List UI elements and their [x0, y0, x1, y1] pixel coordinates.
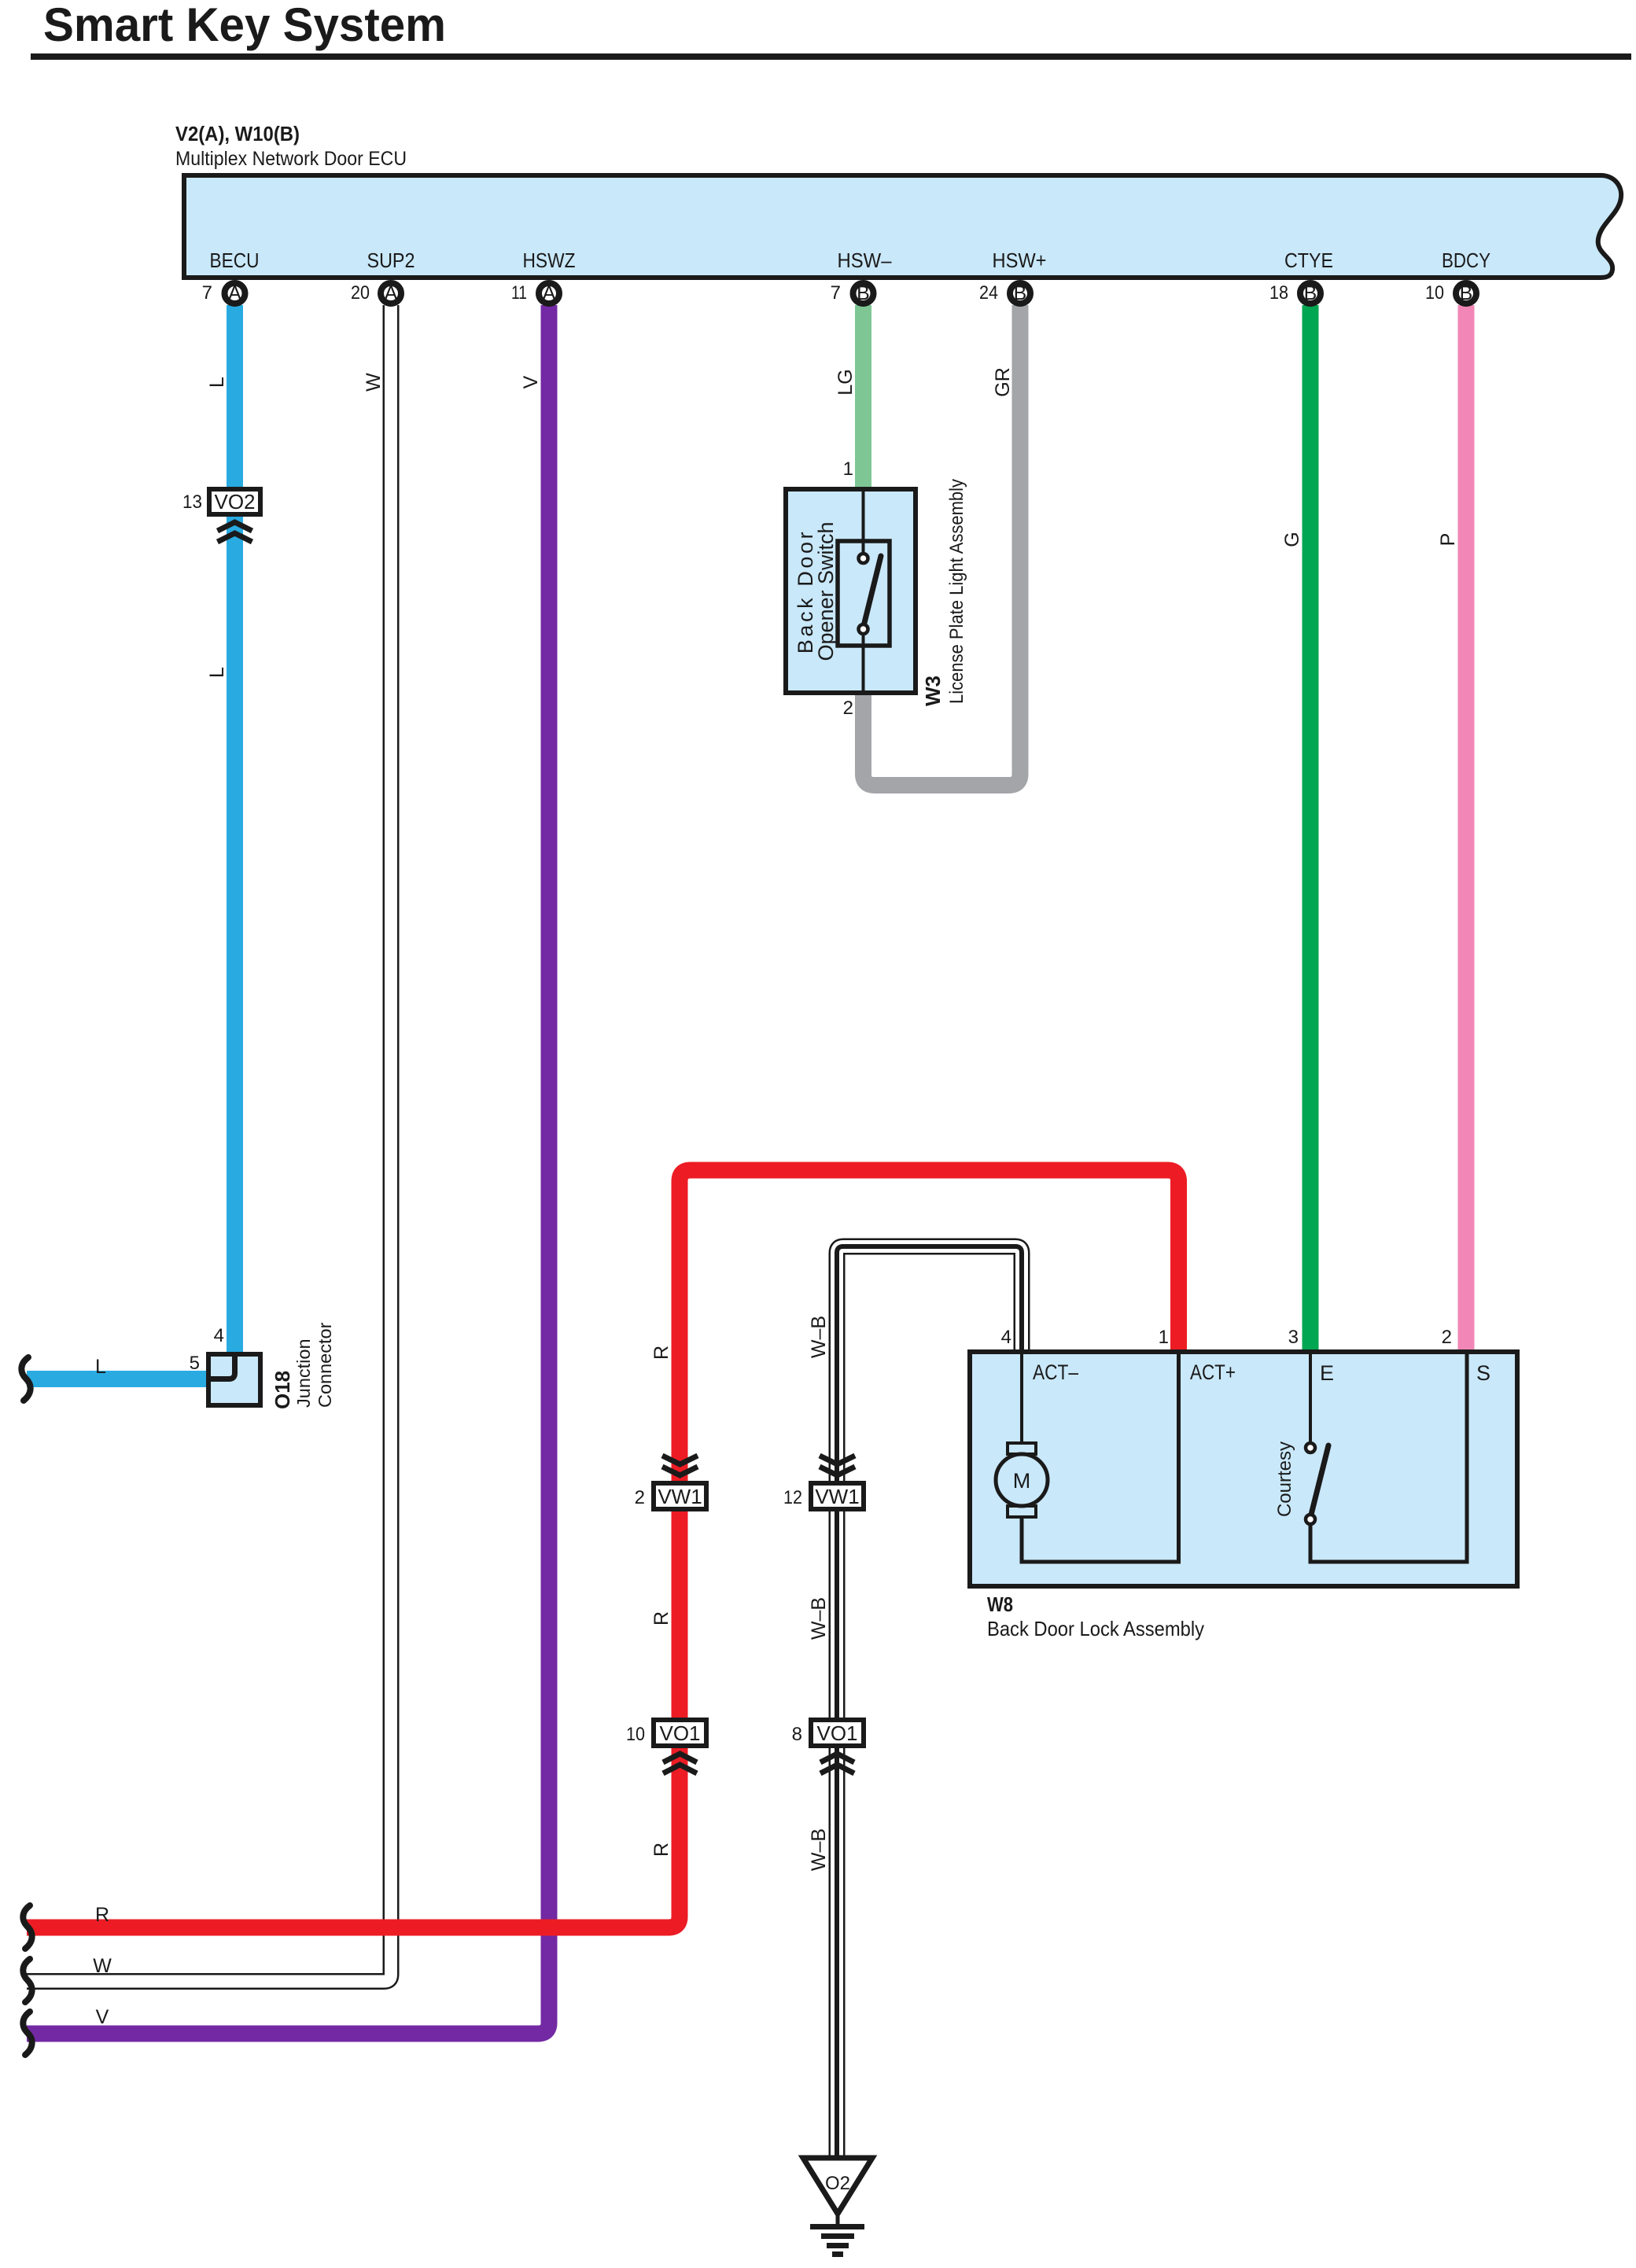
svg-text:B: B: [1304, 282, 1317, 304]
W8 pin number 2: [1442, 1327, 1452, 1348]
svg-text:L: L: [206, 377, 228, 388]
pin 10(B) BDCY: [1425, 282, 1476, 304]
wire V purple from HSWZ pin 11(A): [27, 305, 549, 2034]
pin 7(B) HSW-: [831, 282, 874, 304]
wire label W-B (between VW1 and VO1): [808, 1597, 830, 1640]
connector 8 VO1 on W-B wire: [792, 1720, 864, 1773]
svg-text:1: 1: [843, 458, 853, 480]
svg-text:13: 13: [182, 492, 202, 513]
svg-text:4: 4: [1001, 1327, 1011, 1348]
W3 inner switch rectangle: [838, 541, 890, 646]
wire label L (upper, BECU wire): [206, 377, 228, 388]
wire label R (below VO1): [650, 1843, 672, 1857]
wire LG light green from HSW- pin 7(B): [855, 305, 871, 489]
connector 2 VW1 on R wire: [635, 1456, 706, 1509]
motor M symbol: [996, 1443, 1048, 1517]
svg-text:B: B: [1460, 282, 1473, 304]
svg-text:12: 12: [783, 1487, 802, 1508]
svg-text:HSW–: HSW–: [838, 249, 892, 272]
wire label L (horizontal O18 wire): [95, 1356, 106, 1378]
svg-text:Back Door Lock Assembly: Back Door Lock Assembly: [987, 1617, 1204, 1640]
wire label W (SUP2 wire): [363, 373, 385, 392]
svg-text:License Plate Light Assembly: License Plate Light Assembly: [946, 479, 967, 704]
svg-text:B: B: [857, 282, 870, 304]
svg-text:A: A: [385, 282, 398, 304]
svg-text:W–B: W–B: [808, 1597, 830, 1640]
connector 10 VO1 on R wire: [626, 1720, 706, 1773]
svg-text:V: V: [96, 2006, 109, 2028]
pin 20(A) SUP2: [351, 282, 401, 304]
svg-text:R: R: [650, 1611, 672, 1626]
svg-text:3: 3: [1288, 1327, 1299, 1348]
pin 18(B) CTYE: [1269, 282, 1321, 304]
wire label R (above VW1): [650, 1346, 672, 1360]
svg-text:B: B: [1014, 282, 1027, 304]
wire label V (horizontal bottom): [96, 2006, 109, 2028]
svg-text:W: W: [93, 1955, 112, 1977]
svg-text:18: 18: [1269, 282, 1288, 304]
pin 7(A) BECU: [202, 282, 245, 304]
W8 pin number 4: [1001, 1327, 1011, 1348]
svg-text:5: 5: [190, 1353, 200, 1374]
ECU pin name SUP2: [367, 249, 415, 272]
pin 24(B) HSW+: [979, 282, 1030, 304]
harness break squiggle on L wire: [21, 1357, 30, 1401]
wire label LG (HSW- wire): [835, 369, 857, 395]
svg-text:R: R: [650, 1346, 672, 1360]
connector 13 VO2 on L wire: [182, 489, 260, 542]
connector 12 VW1 on W-B wire: [783, 1456, 864, 1509]
svg-text:W–B: W–B: [808, 1316, 830, 1358]
W8 courtesy switch circuit conductor: [1310, 1354, 1467, 1562]
wire label R (horizontal bottom): [95, 1904, 109, 1926]
W8 pin number 1: [1159, 1327, 1169, 1348]
wire label GR (HSW+ wire): [992, 367, 1014, 397]
courtesy label: [1274, 1441, 1295, 1517]
title underline rule: [31, 53, 1631, 60]
svg-text:VO1: VO1: [659, 1721, 700, 1745]
courtesy switch contacts and blade: [1306, 1443, 1328, 1524]
O18 name label Junction Connector: [271, 1322, 335, 1409]
svg-text:ACT–: ACT–: [1033, 1360, 1078, 1384]
svg-text:HSWZ: HSWZ: [523, 249, 576, 272]
wire label P (BDCY wire): [1437, 533, 1459, 547]
ECU pin name BECU: [210, 249, 260, 272]
switch box W3 Back Door Opener Switch: [786, 489, 916, 693]
W8 name label Back Door Lock Assembly: [987, 1592, 1204, 1640]
svg-text:8: 8: [792, 1724, 802, 1745]
W3 pin number 1: [843, 458, 853, 480]
svg-text:W–B: W–B: [808, 1828, 830, 1871]
svg-text:S: S: [1476, 1361, 1490, 1385]
svg-text:Courtesy: Courtesy: [1274, 1441, 1295, 1517]
svg-text:10: 10: [1425, 282, 1444, 304]
wire W white from SUP2 pin 20(A): [27, 305, 391, 1982]
svg-text:V: V: [520, 375, 542, 388]
W8 motor circuit conductor: [1022, 1354, 1179, 1562]
ECU pin name BDCY: [1442, 249, 1490, 272]
svg-text:G: G: [1281, 532, 1303, 547]
svg-text:O2: O2: [825, 2173, 850, 2194]
wire L blue horizontal from O18 pin 5: [27, 1371, 212, 1387]
harness break squiggle on V wire: [23, 2012, 31, 2055]
harness break squiggle on W wire: [23, 1959, 31, 2002]
W3 pin number 2: [843, 698, 853, 719]
svg-text:Opener Switch: Opener Switch: [814, 521, 838, 661]
svg-text:4: 4: [214, 1325, 224, 1346]
ECU name label V2(A), W10(B) Multiplex Network Door ECU: [175, 122, 407, 170]
svg-text:VW1: VW1: [815, 1485, 859, 1508]
svg-text:Smart Key System: Smart Key System: [43, 0, 446, 51]
svg-text:1: 1: [1159, 1327, 1169, 1348]
svg-text:10: 10: [626, 1724, 645, 1745]
wire P pink from BDCY pin 10(B) to W8 pin 2: [1458, 305, 1475, 1351]
svg-text:HSW+: HSW+: [993, 249, 1047, 272]
lock assembly box W8: [970, 1352, 1517, 1586]
svg-text:P: P: [1437, 533, 1459, 547]
ECU box Multiplex Network Door ECU: [184, 175, 1621, 278]
svg-text:BDCY: BDCY: [1442, 249, 1490, 272]
svg-text:R: R: [650, 1843, 672, 1857]
wire label W (horizontal bottom): [93, 1955, 112, 1977]
wire W-B white-black from W8 pin 4 to ground O2: [837, 1246, 1022, 2158]
svg-text:L: L: [206, 667, 228, 678]
ECU pin name HSW+: [993, 249, 1047, 272]
wire label V (HSWZ wire): [520, 375, 542, 388]
svg-text:Connector: Connector: [315, 1322, 335, 1408]
svg-text:Multiplex Network Door ECU: Multiplex Network Door ECU: [175, 148, 407, 170]
wire R red from harness break to W8 pin 1: [27, 1170, 1179, 1927]
wire GR gray from W3 pin 2 to HSW+ pin 24(B): [864, 305, 1021, 786]
svg-text:CTYE: CTYE: [1284, 249, 1333, 272]
svg-text:24: 24: [979, 282, 998, 304]
svg-text:W8: W8: [987, 1592, 1013, 1616]
W8 terminal label ACT+: [1190, 1360, 1236, 1384]
ECU pin name HSW-: [838, 249, 892, 272]
ECU pin name HSWZ: [523, 249, 576, 272]
svg-text:LG: LG: [835, 369, 857, 395]
svg-text:VO2: VO2: [214, 490, 255, 514]
svg-text:7: 7: [202, 282, 212, 304]
svg-text:2: 2: [1442, 1327, 1452, 1348]
svg-text:VW1: VW1: [658, 1485, 702, 1508]
svg-text:2: 2: [635, 1487, 645, 1508]
svg-text:R: R: [95, 1904, 109, 1926]
svg-text:M: M: [1013, 1469, 1031, 1493]
W8 pin number 3: [1288, 1327, 1299, 1348]
wire label R (between VW1 and VO1): [650, 1611, 672, 1626]
svg-text:2: 2: [843, 698, 853, 719]
svg-text:W: W: [363, 373, 385, 392]
svg-text:O18: O18: [271, 1371, 294, 1409]
wire label G (CTYE wire): [1281, 532, 1303, 547]
svg-text:V2(A), W10(B): V2(A), W10(B): [175, 122, 300, 145]
svg-text:7: 7: [831, 282, 841, 304]
svg-text:BECU: BECU: [210, 249, 260, 272]
W3 name label License Plate Light Assembly: [921, 479, 967, 706]
svg-text:W3: W3: [921, 676, 945, 706]
wire label W-B (below VO1): [808, 1828, 830, 1871]
svg-text:20: 20: [351, 282, 370, 304]
svg-text:A: A: [543, 282, 556, 304]
W8 terminal label ACT-: [1033, 1360, 1078, 1384]
svg-text:E: E: [1320, 1361, 1334, 1385]
title Smart Key System: [43, 0, 446, 51]
pin 11(A) HSWZ: [511, 282, 559, 304]
wire label W-B (above VW1): [808, 1316, 830, 1358]
W8 terminal label S: [1476, 1361, 1490, 1385]
wire L blue vertical from BECU pin 7(A): [227, 305, 243, 1356]
svg-text:GR: GR: [992, 367, 1014, 397]
svg-text:A: A: [228, 282, 241, 304]
svg-text:L: L: [95, 1356, 106, 1378]
W8 terminal label E: [1320, 1361, 1334, 1385]
ground O2: [803, 2158, 872, 2257]
svg-text:SUP2: SUP2: [367, 249, 415, 272]
svg-text:ACT+: ACT+: [1190, 1360, 1236, 1384]
harness break squiggle on R wire: [23, 1905, 31, 1949]
ECU pin name CTYE: [1284, 249, 1333, 272]
wire label L (lower, above O18): [206, 667, 228, 678]
svg-text:Junction: Junction: [293, 1338, 314, 1408]
svg-text:11: 11: [511, 282, 527, 304]
wire G green from CTYE pin 18(B) to W8 pin 3: [1303, 305, 1319, 1351]
W3 switch contacts and blade: [859, 492, 882, 690]
svg-text:VO1: VO1: [816, 1721, 857, 1745]
junction connector O18: [190, 1325, 260, 1405]
